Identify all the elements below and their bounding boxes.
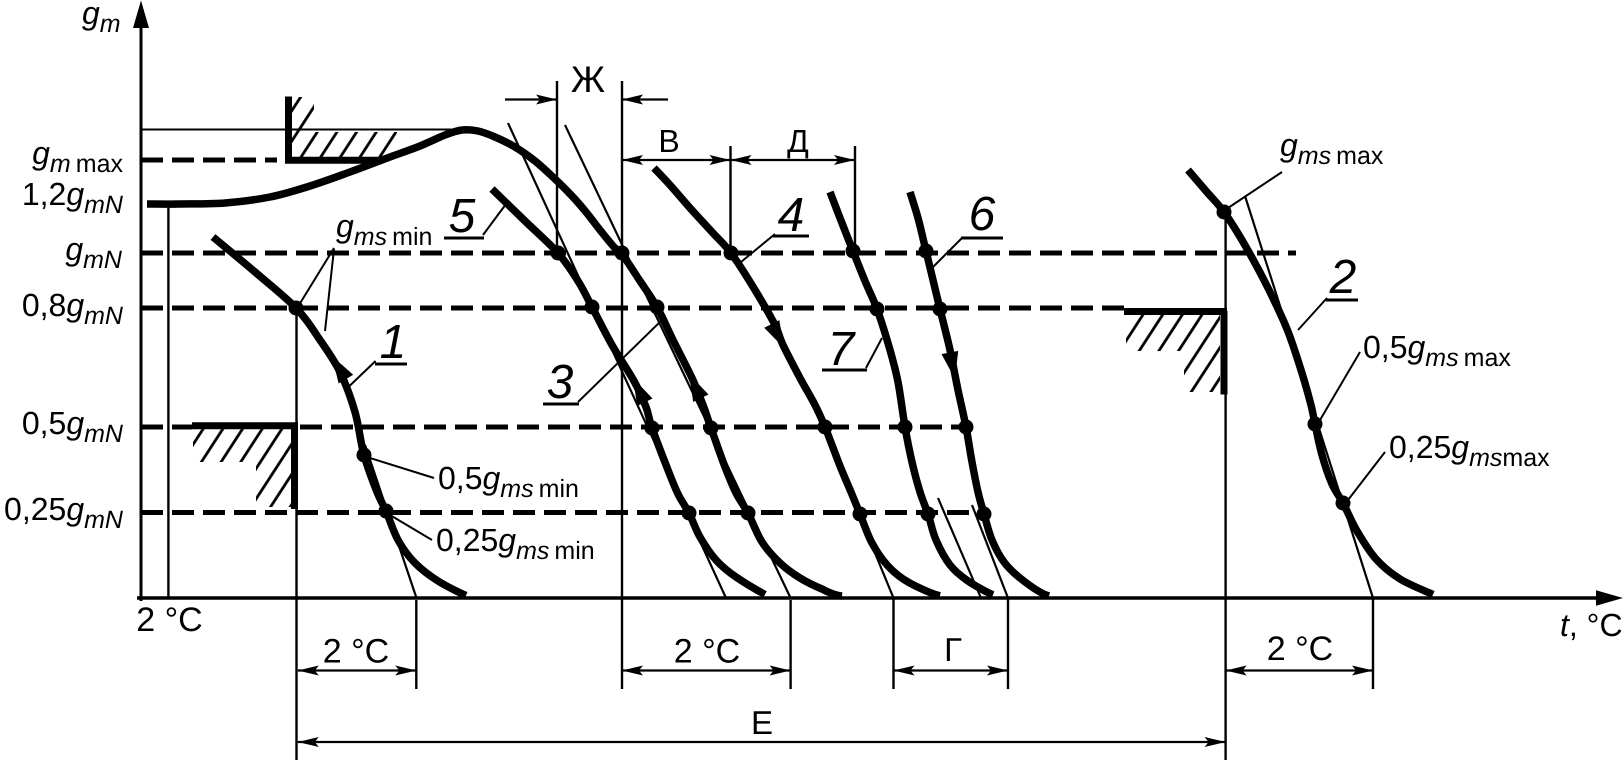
svg-text:В: В [658,123,679,159]
D dimension [731,159,856,161]
arrow up curve1 [332,356,353,384]
dots curve3 [615,246,630,261]
arrow up curve3 [689,374,709,402]
arrow down curve6 [942,351,959,379]
dashed 0.8g_mN [141,306,1124,311]
tangent line curve5 [508,123,726,598]
dots curve1 [289,301,304,316]
tangent line curve6 [972,505,1008,598]
x-axis [137,596,1599,599]
right stop hatch [1126,315,1220,392]
svg-text:7: 7 [828,323,857,376]
top stop hatch [292,97,397,158]
svg-text:Ж: Ж [571,59,605,100]
svg-text:Г: Г [944,631,962,668]
dots curve5 [551,246,566,261]
vertical B-right [729,146,731,253]
vertical line at curve start (2C left) [167,204,169,598]
arrow down curve4 [764,320,784,348]
tangent line curve4 [845,480,894,598]
dots curve6 [919,244,934,259]
tangent line curve2 [1245,196,1373,598]
dots curve4 [724,246,739,261]
tangent line curve7 [938,498,981,598]
left stop hatch [193,429,291,507]
svg-text:Д: Д [787,123,809,159]
bottom 2C right dimension [1226,669,1373,671]
dashed 0.5g_mN right part [300,425,963,430]
bottom 2C middle dimension [622,669,791,671]
curve 3 main bump [147,130,842,596]
dashed 0.25g_mN [141,510,984,515]
svg-text:4: 4 [778,189,805,242]
svg-text:1: 1 [380,316,407,369]
svg-text:Е: Е [751,704,773,741]
svg-text:2: 2 [1329,251,1357,304]
tick 1008 [1007,598,1009,689]
curve 7 [830,192,993,595]
dots curve7 [846,244,861,259]
curve 4 [654,168,940,596]
vertical Zh-left [556,81,558,253]
E dimension [298,741,1226,743]
left stop vertical bar [291,425,298,509]
arrow up curve5 [633,378,653,406]
y-axis [140,26,143,601]
right stop horizontal bar [1124,308,1227,315]
dashed g_mN [141,251,1296,256]
right stop vertical bar [1221,311,1228,395]
vertical through g_ms_min dot [295,308,297,760]
B dimension [622,159,731,161]
bottom 2C left dimension [298,669,417,671]
dashed g_m_max [141,158,277,163]
tangent line curve3 [565,125,791,598]
svg-text:3: 3 [547,356,574,409]
svg-text:t, °C: t, °C [1560,607,1623,643]
svg-text:5: 5 [449,190,476,243]
G dimension [894,669,1009,671]
top stop horizontal bar [285,157,381,164]
tangent line curve1 [365,445,417,598]
curve 6 [910,192,1049,596]
tick 1373 [1372,598,1374,689]
vertical D-right [854,146,856,251]
curve 1 [213,237,466,596]
svg-text:2 °C: 2 °C [1267,630,1334,668]
tick 893 [892,598,894,689]
svg-text:6: 6 [969,188,996,241]
tick 790 [789,600,791,689]
solid line at peak level [141,129,456,131]
Zh dimension [505,98,556,100]
vertical Zh-right [621,81,623,689]
top stop vertical bar [285,97,292,164]
curve 5 [492,189,765,595]
svg-text:2 °C: 2 °C [136,601,203,639]
dashed 0.5g_mN left part [141,425,192,430]
left stop horizontal bar [192,422,298,429]
vertical through g_ms_max dot [1224,211,1226,760]
curve 2 [1188,170,1433,595]
svg-text:2 °C: 2 °C [323,633,390,671]
svg-text:2 °C: 2 °C [674,633,741,671]
tick 416 [415,600,417,689]
dots curve2 [1217,205,1232,220]
